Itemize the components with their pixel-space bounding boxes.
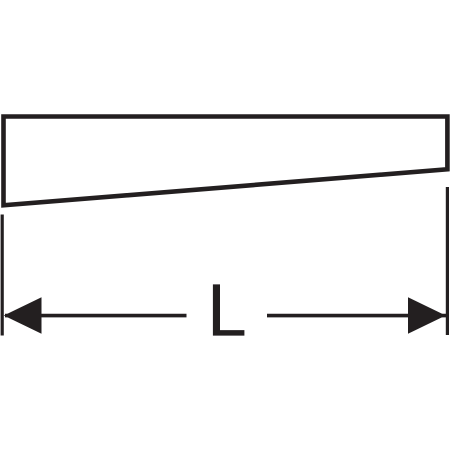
left extension line xyxy=(1,215,4,336)
label L xyxy=(213,284,245,335)
dimension line left segment xyxy=(5,314,187,318)
right arrowhead xyxy=(408,297,446,333)
right extension line xyxy=(446,187,449,335)
dimension line right segment xyxy=(267,314,446,318)
wedge outline (tapered bar) xyxy=(4,117,448,206)
left arrowhead xyxy=(4,297,42,333)
